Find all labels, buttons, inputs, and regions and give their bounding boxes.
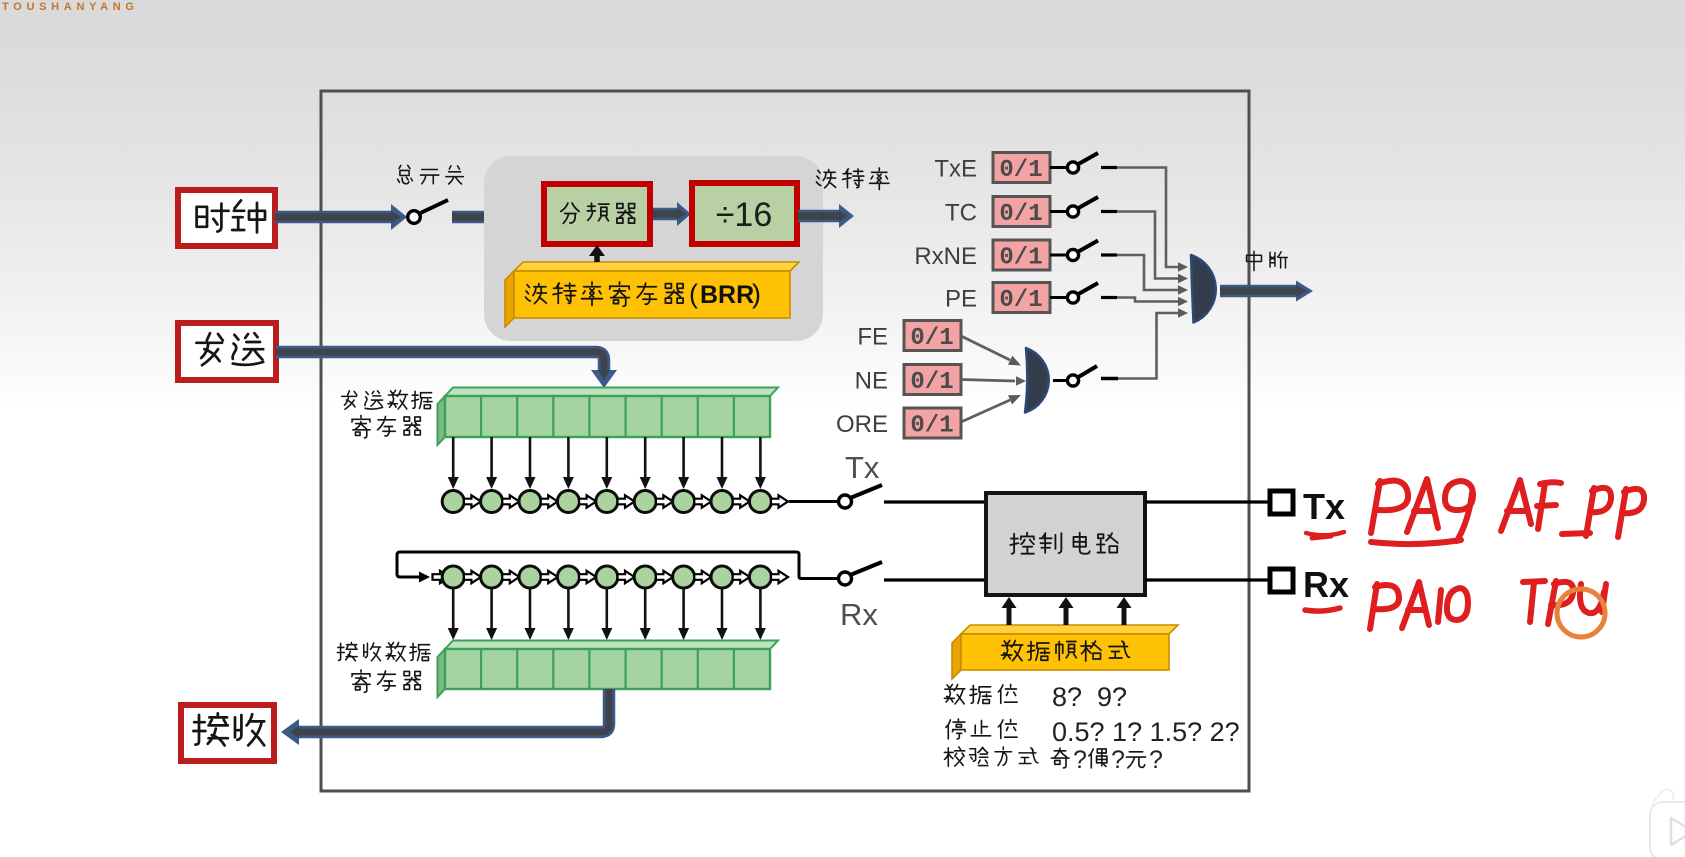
- node flag FE: [857, 321, 961, 353]
- node clock input 时钟: [178, 190, 275, 246]
- svg-text:ORE: ORE: [836, 411, 888, 438]
- node send input 发送: [178, 323, 276, 380]
- switch flag RxNE: [1050, 241, 1117, 261]
- node divide-by-16: [692, 183, 797, 244]
- svg-text:RxNE: RxNE: [914, 243, 977, 270]
- node label Rx internal: [840, 597, 878, 632]
- node annotation AF_PP: [1501, 480, 1644, 537]
- wire frame format to control: [1002, 597, 1132, 625]
- svg-text:PE: PE: [945, 286, 977, 313]
- or-gate interrupt: [1191, 255, 1216, 323]
- node annotation orange circle: [1557, 589, 1605, 637]
- node receive output 接收: [181, 705, 274, 761]
- node flag TxE: [934, 153, 1050, 185]
- svg-text:0.5? 1? 1.5? 2?: 0.5? 1? 1.5? 2?: [1052, 717, 1240, 747]
- wire TDR to shift register bits: [448, 437, 766, 489]
- node label 波特率: [816, 168, 888, 190]
- switch error interrupt enable: [1053, 366, 1118, 386]
- node text stop bits row: [946, 717, 1240, 747]
- svg-text:?: ?: [1149, 746, 1163, 774]
- register transmit data: [438, 388, 779, 446]
- node label 总开关: [398, 165, 464, 184]
- wire Rx feedback loop: [397, 552, 838, 583]
- wire TC to OR gate: [1117, 212, 1188, 284]
- node baud generator panel: [484, 156, 823, 341]
- switch flag PE: [1050, 283, 1117, 303]
- svg-text:): ): [752, 279, 761, 309]
- wire switch to divider: [452, 204, 544, 230]
- node watermark TOUSHANYANG: [2, 1, 139, 13]
- wire interrupt output: [1220, 281, 1313, 302]
- node annotation IPU: [1523, 581, 1606, 624]
- svg-text:0/1: 0/1: [999, 287, 1042, 314]
- switch Tx output: [839, 485, 883, 508]
- wire TxE to OR gate: [1117, 168, 1188, 272]
- wire PE to OR gate: [1117, 297, 1188, 307]
- node flag ORE: [836, 408, 961, 440]
- svg-text:Rx: Rx: [1303, 564, 1349, 605]
- svg-text:?: ?: [1111, 746, 1125, 774]
- wire RxNE to OR gate: [1117, 255, 1188, 295]
- node control circuit 控制电路: [986, 493, 1145, 595]
- node play icon: [1649, 786, 1685, 857]
- wire Rx switch to control: [884, 578, 986, 581]
- node annotation PA9: [1371, 479, 1473, 544]
- svg-text:0/1: 0/1: [910, 325, 953, 352]
- wire BRR to divider: [589, 245, 605, 262]
- node annotation Rx underline: [1305, 608, 1340, 611]
- wire clock to master switch: [275, 204, 407, 230]
- svg-text:TC: TC: [945, 200, 977, 227]
- svg-text:Tx: Tx: [845, 450, 880, 485]
- svg-text:÷16: ÷16: [716, 196, 772, 234]
- node Rx pin: [1270, 564, 1349, 605]
- node data frame format 数据帧格式: [952, 625, 1178, 679]
- node flag NE: [855, 365, 961, 397]
- svg-text:0/1: 0/1: [999, 245, 1042, 272]
- node baud rate register BRR: [505, 262, 799, 327]
- register receive data: [438, 641, 779, 698]
- node text data bits row: [944, 682, 1127, 712]
- wire control to Tx pin: [1145, 500, 1268, 503]
- node flag TC: [945, 197, 1050, 229]
- svg-text:0/1: 0/1: [910, 413, 953, 440]
- svg-text:0/1: 0/1: [999, 201, 1042, 228]
- wire baud rate output: [798, 204, 854, 228]
- or-gate error flags: [1025, 348, 1049, 413]
- node annotation PA10: [1370, 582, 1468, 629]
- wire receive shift end: [771, 571, 788, 583]
- node USART block boundary: [321, 91, 1249, 791]
- svg-text:Tx: Tx: [1303, 486, 1345, 527]
- register receive shift chain: [442, 566, 771, 588]
- switch flag TC: [1050, 197, 1117, 217]
- node Tx pin: [1270, 486, 1345, 527]
- switch Rx input: [839, 562, 883, 585]
- svg-text:0/1: 0/1: [910, 369, 953, 396]
- svg-text:FE: FE: [857, 324, 888, 351]
- svg-text:8? 9?: 8? 9?: [1052, 682, 1127, 712]
- svg-text:0/1: 0/1: [999, 157, 1042, 184]
- node divider 分频器: [544, 184, 650, 244]
- wire divider to div16: [653, 202, 691, 226]
- wire error gate to OR gate: [1118, 308, 1188, 378]
- svg-text:Rx: Rx: [840, 597, 878, 632]
- node label 发送数据寄存器: [342, 390, 432, 437]
- node flag PE: [945, 283, 1050, 315]
- node label 中断: [1247, 251, 1288, 270]
- svg-text:BRR: BRR: [700, 281, 754, 309]
- node label Tx internal: [845, 450, 880, 485]
- svg-text:NE: NE: [855, 368, 888, 395]
- svg-text:(: (: [689, 279, 698, 309]
- node flag RxNE: [914, 240, 1050, 272]
- wire shift bits to RDR: [448, 588, 766, 640]
- svg-text:?: ?: [1073, 746, 1087, 774]
- wire Tx switch to control: [884, 500, 986, 503]
- wire shift out to Tx switch: [771, 495, 838, 507]
- svg-text:TOUSHANYANG: TOUSHANYANG: [2, 1, 139, 13]
- wire control to Rx pin: [1145, 578, 1268, 581]
- register transmit shift chain: [442, 491, 771, 513]
- svg-text:TxE: TxE: [934, 156, 977, 183]
- switch flag TxE: [1050, 153, 1117, 173]
- wire ORE to error OR gate: [961, 395, 1021, 422]
- wire receive data out: [281, 689, 609, 745]
- node annotation Tx underline: [1306, 532, 1344, 538]
- wire send data in: [276, 352, 617, 388]
- node text parity row: [944, 746, 1163, 774]
- wire NE to error OR gate: [961, 376, 1026, 386]
- wire FE to error OR gate: [961, 336, 1021, 366]
- switch master enable: [408, 200, 448, 223]
- node label 接收数据寄存器: [337, 642, 430, 692]
